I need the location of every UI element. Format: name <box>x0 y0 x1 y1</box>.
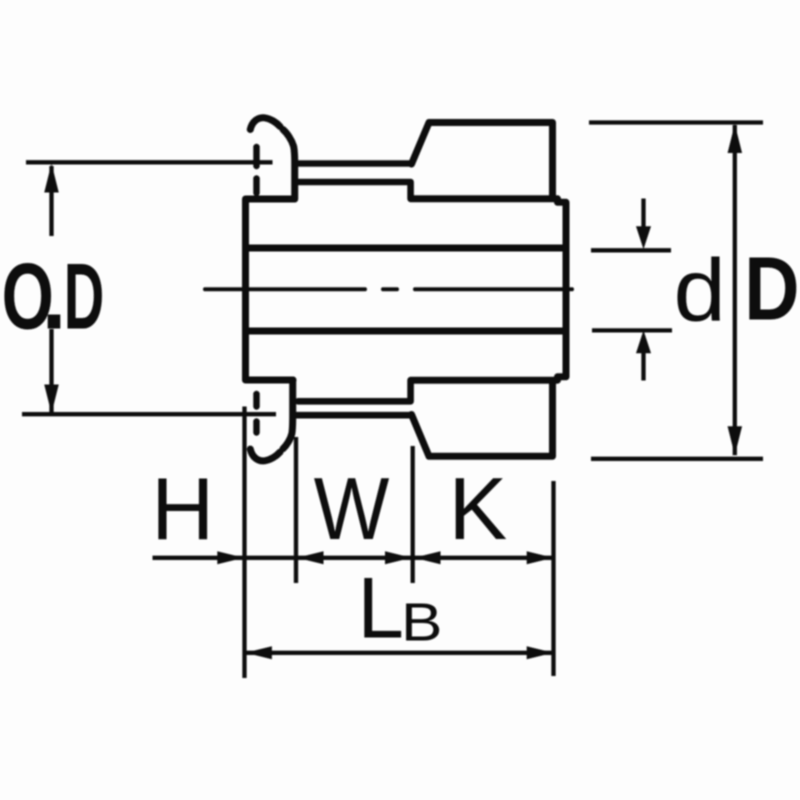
arrowhead K right <box>527 551 554 564</box>
upper neck line outer <box>296 160 412 167</box>
O.D extension line bottom <box>22 412 276 416</box>
phantom roller arc lower <box>250 449 280 461</box>
D extension line top <box>589 120 763 124</box>
lower neck line outer <box>296 412 412 419</box>
svg-text:L: L <box>358 559 404 655</box>
d arrow shaft bottom <box>641 344 645 381</box>
upper neck line inner <box>298 182 411 199</box>
arrowhead K left <box>414 551 441 564</box>
phantom center dashes lower <box>253 394 260 433</box>
extension line W-right/K-left <box>411 446 415 583</box>
arrowhead W left <box>297 551 324 564</box>
H W K dimension line <box>153 556 554 560</box>
lower right block <box>412 381 553 457</box>
hub outline <box>246 199 295 380</box>
arrowhead d bottom <box>636 330 651 353</box>
arrowhead D top <box>728 124 743 153</box>
bore line upper <box>246 245 565 252</box>
axis centerline <box>205 287 572 291</box>
arrowhead LB left <box>245 646 272 659</box>
arrowhead W right <box>385 551 412 564</box>
extension line H-left/LB-left <box>242 407 246 679</box>
O.D dimension line <box>49 166 53 413</box>
LB dimension line <box>245 651 553 655</box>
hub right side with steps <box>411 199 566 380</box>
svg-text:K: K <box>449 459 508 558</box>
svg-text:H: H <box>151 460 214 558</box>
d extension line bottom <box>592 328 672 332</box>
upper tooth flank <box>283 130 295 200</box>
svg-text:d: d <box>674 242 726 340</box>
extension line H-right/W-left <box>294 437 298 583</box>
lower neck line inner <box>298 380 411 401</box>
arrowhead O.D top <box>44 164 59 193</box>
D extension line bottom <box>591 457 763 461</box>
d extension line top <box>591 248 671 252</box>
svg-text:.: . <box>42 244 67 349</box>
bore line lower <box>246 328 565 335</box>
svg-text:D: D <box>744 238 799 339</box>
arrowhead d top <box>636 226 651 249</box>
O.D extension line top <box>26 160 273 164</box>
upper right block <box>412 123 553 199</box>
D dimension line <box>733 125 737 455</box>
arrowhead H right <box>217 551 244 564</box>
arrowhead O.D bottom <box>44 385 59 414</box>
lower tooth flank <box>283 380 293 449</box>
svg-text:B: B <box>401 592 442 652</box>
d arrow shaft top <box>641 199 645 237</box>
arrowhead LB right <box>527 646 554 659</box>
svg-text:W: W <box>314 460 390 558</box>
phantom center dashes upper <box>253 147 260 193</box>
extension line K-right/LB-right <box>551 481 555 676</box>
svg-text:D: D <box>64 245 105 349</box>
arrowhead D bottom <box>728 426 743 455</box>
phantom roller arc upper <box>250 118 280 130</box>
